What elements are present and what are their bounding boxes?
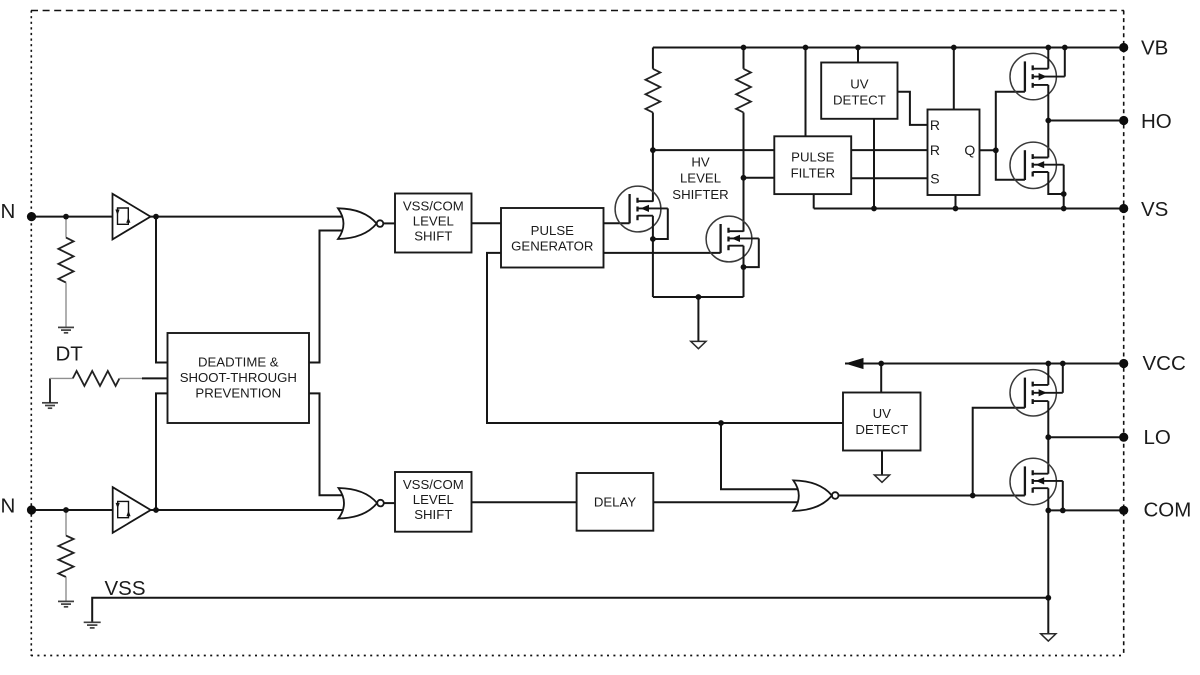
IC boundary dashed border bottom [31, 655, 1124, 657]
svg-text:SHIFTER: SHIFTER [672, 187, 728, 202]
svg-text:VCC: VCC [1143, 352, 1186, 375]
resistor R pulldown HIN lead bottom [65, 283, 67, 327]
svg-text:HV: HV [691, 155, 710, 170]
node VSS rail [1045, 595, 1051, 601]
svg-text:R: R [930, 117, 940, 133]
wire pulse filter output to latch R2 [851, 149, 927, 151]
wire latch top feed [953, 48, 955, 110]
svg-text:N: N [1, 495, 16, 518]
wire Q1 source to HO node [1047, 85, 1049, 158]
svg-text:COM: COM [1144, 498, 1192, 521]
wire pulse generator to M1 gate [604, 222, 630, 224]
wire node C down to substrate arrow [697, 297, 699, 341]
node VCC Q3 body [1060, 361, 1066, 367]
node VB rail UV detect [855, 45, 861, 51]
node VB rail Q1 drain [1045, 45, 1051, 51]
wire VCC rail [845, 363, 1124, 365]
wire level shift 1 to pulse generator [472, 222, 502, 224]
transistor Q3 LO driver PMOS [1010, 370, 1063, 416]
node VB rail R2 [741, 45, 747, 51]
resistor R pulldown LIN lead top [65, 510, 67, 536]
svg-text:HO: HO [1141, 110, 1172, 133]
svg-text:S: S [930, 170, 939, 186]
wire Q2 body tie [1063, 165, 1065, 209]
wire node A down to deadtime block top-left [156, 217, 168, 363]
resistor R pulldown HIN zigzag [58, 238, 73, 283]
IC boundary dashed border top [31, 10, 1124, 12]
node COM Q4 body [1060, 508, 1066, 514]
pin HIN terminal [27, 212, 36, 221]
pin VB terminal [1119, 43, 1128, 52]
wire latch bottom to VS rail [955, 195, 957, 209]
node COM Q4 source [1045, 508, 1051, 514]
wire delay to NOR gate G3 [653, 501, 797, 503]
wire VB rail to Q1 drain [1047, 48, 1049, 69]
resistor R1 (HV shifter left) [646, 48, 661, 113]
wire VSS rail [92, 598, 1048, 622]
wire level shift 2 to delay [472, 501, 577, 503]
wire UV detect 1 top feed [857, 48, 859, 63]
transistor Q4 LO driver NMOS [1010, 458, 1063, 504]
transistor M2 HV level shift MOSFET right [706, 216, 759, 262]
resistor R DT lead left [50, 377, 73, 379]
node B pulse gen low branch [718, 420, 724, 426]
wire pulse generator bottom output to low side UV detect [487, 253, 843, 423]
node E NOR G3 output branch [970, 493, 976, 499]
wire VCC rail to Q3 drain [1047, 364, 1049, 385]
wire pulse generator to M2 gate [604, 252, 721, 254]
wire VCC rail to Q3 body [1062, 364, 1064, 393]
wire Q2 source to VS [1048, 172, 1063, 194]
substrate arrow below UV detect 2 [874, 475, 889, 482]
wire M2 source down [743, 246, 745, 297]
ground under HIN pulldown [58, 327, 74, 332]
node VCC UV2 [878, 361, 884, 367]
wire R1 node to pulse filter input 1 [653, 149, 774, 151]
node D schmitt U3 output [153, 507, 159, 513]
svg-text:SHIFT: SHIFT [414, 507, 452, 522]
transistor Q1 HO driver PMOS [1010, 53, 1065, 99]
wire HV shifter bottom rail [653, 296, 744, 298]
wire pulse filter output to latch S [851, 177, 927, 179]
svg-text:DETECT: DETECT [833, 93, 886, 108]
wire HIN input to schmitt U1 [32, 216, 113, 218]
svg-text:PREVENTION: PREVENTION [195, 386, 281, 401]
svg-text:VB: VB [1141, 36, 1168, 59]
node VCC Q3 drain [1045, 361, 1051, 367]
ground for VSS [84, 622, 101, 628]
node LO [1045, 434, 1051, 440]
node LIN pulldown junction [63, 507, 69, 513]
transistor Q2 HO driver NMOS [1010, 142, 1064, 188]
svg-text:LEVEL: LEVEL [413, 492, 454, 507]
wire Q4 body tie [1062, 481, 1064, 511]
node HIN pulldown junction [63, 214, 69, 220]
pin VCC terminal [1119, 359, 1128, 368]
wire HO output line [1048, 120, 1123, 122]
pin VS terminal [1119, 204, 1128, 213]
node VB rail latch [951, 45, 957, 51]
wire VB top rail [653, 47, 1124, 49]
wire schmitt U1 output to NOR gate G1 [151, 216, 343, 218]
node VS rail latch [953, 206, 959, 212]
node M1 source tie [650, 236, 656, 242]
ground for DT network [42, 403, 58, 408]
svg-text:VSS: VSS [105, 577, 146, 600]
transistor M1 HV level shift MOSFET left [615, 186, 668, 232]
wire LO output line [1048, 436, 1123, 438]
wire UV detect 1 bottom to VS rail [873, 119, 875, 209]
substrate arrow bottom right [1041, 634, 1056, 641]
svg-text:Q: Q [964, 142, 975, 158]
wire R2 bottom to M2 drain [743, 113, 745, 232]
IC boundary dashed border right [1123, 11, 1125, 657]
pin LO terminal [1119, 433, 1128, 442]
NOR gate G3 [793, 480, 838, 511]
IC boundary dashed border left [30, 11, 32, 657]
wire VS rail [814, 208, 1124, 210]
wire pulse filter top feed [805, 48, 807, 137]
block PULSE FILTER [774, 136, 851, 194]
svg-text:DEADTIME &: DEADTIME & [198, 354, 279, 369]
wire latch Q output [980, 149, 996, 151]
node M2 source tie [741, 264, 747, 270]
svg-text:FILTER: FILTER [791, 165, 835, 180]
wire UV detect 1 output to latch R1 [898, 92, 928, 125]
node R2 bottom [741, 175, 747, 181]
block DEADTIME & SHOOT-THROUGH PREVENTION [168, 333, 310, 423]
node Q2 source body tie [1061, 191, 1067, 197]
svg-text:R: R [930, 142, 940, 158]
wire M1 source down [652, 216, 654, 297]
wire NOR G1 output to VSS/COM level shift 1 [383, 222, 395, 224]
wire M2 body tie to source [744, 238, 759, 267]
wire node E bracket to LO driver PMOS gate [973, 408, 1025, 496]
wire deadtime bottom-right to NOR G2 second input [309, 393, 343, 495]
wire node D up to deadtime block bottom-left [156, 393, 168, 510]
wire deadtime top-right to NOR G1 second input [309, 231, 343, 363]
node HO [1045, 118, 1051, 124]
pin COM terminal [1119, 506, 1128, 515]
svg-text:PULSE: PULSE [791, 150, 834, 165]
node C HV bottom center [696, 294, 702, 300]
wire R2 node to pulse filter input 2 [744, 177, 775, 179]
wire branch node B down to NOR gate G3 input [721, 423, 798, 489]
schmitt trigger U1 (HIN buffer) [113, 194, 151, 240]
resistor R DT zigzag [73, 371, 120, 386]
wire R1 bottom to M1 drain [652, 113, 654, 202]
NOR gate G1 [338, 208, 383, 239]
wire Q4 source to COM and VSS [1047, 488, 1049, 633]
wire NOR G3 output to LO driver NMOS gate [839, 495, 1025, 497]
node VS rail Q2 [1061, 206, 1067, 212]
node VS rail UV1 [871, 206, 877, 212]
svg-text:DELAY: DELAY [594, 495, 636, 510]
wire DT ground lead [49, 378, 51, 402]
wire VCC to UV detect 2 [880, 364, 882, 393]
svg-text:DETECT: DETECT [855, 422, 908, 437]
block UV DETECT (low side) [843, 393, 921, 451]
svg-text:SHOOT-THROUGH: SHOOT-THROUGH [180, 370, 297, 385]
ground under LIN pulldown [58, 601, 74, 606]
node VB rail Q1 body [1062, 45, 1068, 51]
wire VB rail to Q1 body [1064, 48, 1066, 77]
wire COM rail [1048, 509, 1123, 511]
wire Q to HO driver gates bracket [996, 92, 1025, 180]
pin HO terminal [1119, 116, 1128, 125]
latch U2 RS flip-flop [928, 110, 980, 196]
svg-text:GENERATOR: GENERATOR [511, 238, 593, 253]
wire Q3 source to LO node [1047, 401, 1049, 474]
pin terminal dots [27, 43, 1128, 515]
wire NOR G2 output to VSS/COM level shift 2 [384, 502, 395, 504]
substrate arrow below HV shifter [691, 341, 706, 348]
HV LEVEL SHIFTER label [672, 155, 728, 202]
resistor R DT lead right [119, 377, 143, 379]
svg-text:LEVEL: LEVEL [413, 214, 454, 229]
svg-text:VS: VS [1141, 198, 1168, 221]
resistor R pulldown HIN lead top [65, 217, 67, 238]
resistor R pulldown LIN lead bottom [65, 577, 67, 601]
VCC arrow [845, 358, 864, 369]
svg-text:N: N [1, 200, 16, 223]
resistor R2 (HV shifter right) [736, 48, 751, 113]
svg-text:PULSE: PULSE [531, 223, 574, 238]
wire LIN input to schmitt U3 [32, 509, 113, 511]
svg-text:UV: UV [873, 406, 892, 421]
block VSS/COM LEVEL SHIFT (low side) [395, 472, 472, 532]
node Q output [993, 147, 999, 153]
svg-text:LEVEL: LEVEL [680, 171, 721, 186]
block UV DETECT (high side) [821, 63, 897, 119]
wire schmitt U3 output to NOR gate G2 [151, 509, 343, 511]
node A schmitt U1 output [153, 214, 159, 220]
NOR gate G2 [339, 488, 384, 519]
svg-text:DT: DT [56, 343, 84, 366]
svg-text:VSS/COM: VSS/COM [403, 199, 464, 214]
svg-text:SHIFT: SHIFT [414, 229, 452, 244]
svg-text:UV: UV [850, 77, 869, 92]
block VSS/COM LEVEL SHIFT (high side) [395, 194, 472, 253]
pin LIN terminal [27, 505, 36, 514]
svg-text:VSS/COM: VSS/COM [403, 477, 464, 492]
node R1 bottom [650, 147, 656, 153]
wire UV detect 2 bottom to arrow [881, 451, 883, 475]
svg-text:LO: LO [1144, 426, 1171, 449]
wire M1 body tie to source [653, 208, 668, 239]
wire pulse filter bottom to VS rail [813, 194, 815, 208]
schmitt trigger U3 (LIN buffer) [113, 487, 151, 533]
resistor R pulldown LIN zigzag [58, 536, 73, 577]
node VB rail pulse filter [803, 45, 809, 51]
block DELAY [577, 473, 654, 531]
block PULSE GENERATOR [501, 208, 604, 268]
wire DT into deadtime block [142, 377, 168, 379]
